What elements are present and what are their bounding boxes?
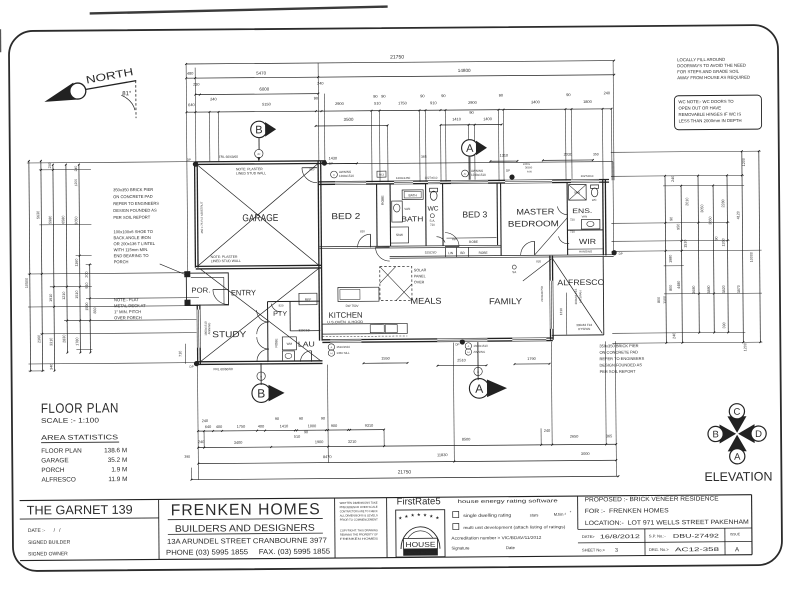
svg-text:BED 3: BED 3: [462, 209, 487, 219]
svg-text:240: 240: [671, 176, 675, 182]
svg-text:A: A: [333, 174, 335, 177]
svg-text:90: 90: [304, 430, 308, 434]
svg-text:LIN: LIN: [448, 251, 454, 255]
svg-text:OR 200x136 T LINTEL: OR 200x136 T LINTEL: [114, 241, 156, 246]
dimension row 14800 / 5470: [186, 75, 614, 78]
svg-text:SOLAR: SOLAR: [414, 268, 427, 272]
svg-text:720: 720: [430, 223, 435, 227]
svg-text:ROBE: ROBE: [274, 338, 278, 347]
svg-text:800: 800: [657, 297, 661, 303]
window kitchen bottom: [330, 339, 361, 344]
svg-text:THE GARNET 139: THE GARNET 139: [27, 503, 133, 518]
svg-text:stars: stars: [530, 512, 539, 517]
dim 1310 above wall: [490, 160, 517, 162]
door wc: [436, 237, 445, 243]
svg-text:90: 90: [669, 217, 673, 221]
svg-text:WM: WM: [287, 342, 293, 346]
wall pty lau block: [267, 302, 269, 362]
wall family alfresco divider: [549, 256, 552, 340]
svg-text:14800: 14800: [458, 68, 471, 73]
scan artifact line top: [90, 7, 388, 14]
svg-text:2900: 2900: [468, 100, 478, 105]
svg-text:BEDROOM: BEDROOM: [508, 219, 559, 228]
svg-text:U.S.OVEN A.HOOD: U.S.OVEN A.HOOD: [327, 320, 364, 324]
svg-text:LAU: LAU: [298, 339, 315, 348]
note locally fill around doorways: [677, 57, 750, 81]
eave line top: [325, 162, 613, 164]
svg-text:FAMILY: FAMILY: [489, 296, 522, 306]
svg-text:390: 390: [722, 322, 726, 328]
wall hall top: [320, 245, 501, 246]
wall ens wir left: [566, 183, 569, 255]
svg-text:6580: 6580: [61, 216, 65, 224]
svg-text:3880: 3880: [707, 285, 711, 293]
laundry trough wm: [282, 337, 296, 350]
svg-text:D: D: [755, 429, 762, 440]
section marker B top: [251, 121, 268, 138]
svg-text:DBU-27492: DBU-27492: [673, 533, 719, 539]
svg-text:PANEL: PANEL: [414, 274, 426, 278]
svg-text:16/8/2012: 16/8/2012: [600, 534, 640, 540]
svg-text:W.3: W.3: [379, 173, 384, 177]
svg-text:525CSD: 525CSD: [425, 250, 437, 254]
alfresco diagonal: [553, 258, 603, 333]
svg-text:3820: 3820: [722, 285, 726, 293]
svg-text:2900: 2900: [335, 101, 345, 106]
wall garage left: [194, 162, 197, 268]
svg-text:WIR: WIR: [579, 237, 596, 246]
svg-text:AJ: AJ: [330, 352, 333, 355]
svg-text:WC: WC: [428, 205, 439, 212]
svg-text:PORCH: PORCH: [114, 259, 129, 264]
svg-text:AJ: AJ: [467, 351, 470, 354]
svg-text:HOUSE: HOUSE: [405, 542, 435, 549]
svg-text:C: C: [733, 407, 740, 418]
svg-text:AWNING: AWNING: [207, 322, 211, 335]
title block outline: [20, 495, 752, 501]
scan artifact left edge: [0, 29, 1, 52]
svg-text:1200: 1200: [742, 158, 746, 166]
title block divider 3: [386, 498, 388, 558]
svg-text:ON CONCRETE PAD: ON CONCRETE PAD: [113, 194, 153, 199]
dimension row 1410 1400: [441, 123, 502, 125]
svg-text:REFER TO ENGINEERS: REFER TO ENGINEERS: [599, 356, 644, 361]
svg-text:LOCATION:- LOT 971 WELLS STRE: LOCATION:- LOT 971 WELLS STREET PAKENHAM: [585, 519, 749, 527]
svg-text:★: ★: [429, 514, 434, 519]
window family alfresco: [549, 281, 554, 329]
proposed block divider: [577, 496, 579, 529]
svg-text:BATH: BATH: [409, 193, 418, 197]
kitchen island: [338, 287, 379, 301]
left extension lines: [27, 162, 195, 163]
left dimension columns: [29, 161, 31, 371]
firstrate5 logo: [396, 510, 445, 557]
svg-text:1200x1450: 1200x1450: [396, 176, 411, 180]
window family bottom: [512, 337, 546, 342]
svg-text:HANGING: HANGING: [579, 249, 592, 253]
svg-text:FRENKEN HOMES: FRENKEN HOMES: [171, 501, 321, 519]
svg-text:3680: 3680: [692, 286, 696, 294]
svg-text:SIGNED BUILDER: SIGNED BUILDER: [28, 540, 71, 546]
section marker B bottom: [252, 384, 271, 403]
svg-text:★: ★: [435, 515, 440, 520]
svg-text:Signature: Signature: [451, 545, 470, 550]
svg-text:3: 3: [615, 548, 618, 554]
svg-text:2650: 2650: [570, 435, 578, 439]
svg-text:A: A: [331, 346, 333, 349]
svg-text:SA: SA: [512, 270, 516, 274]
svg-text:900: 900: [331, 424, 337, 428]
svg-text:2100x3075D: 2100x3075D: [540, 286, 544, 302]
dim 2510 below meals: [438, 364, 487, 366]
svg-text:1310: 1310: [559, 308, 563, 315]
svg-text:OPEN OUT OR HAVE: OPEN OUT OR HAVE: [678, 105, 721, 110]
svg-text:35.2 M: 35.2 M: [108, 457, 128, 464]
wall lower wing bottom study lau: [196, 361, 322, 362]
svg-text:1400: 1400: [483, 116, 493, 121]
svg-text:3870: 3870: [737, 285, 741, 293]
wall garage top: [195, 161, 326, 162]
svg-text:710: 710: [178, 351, 182, 357]
dim 1550 below kitchen: [364, 362, 408, 364]
svg-text:640: 640: [188, 102, 195, 107]
window study left: [196, 310, 201, 348]
svg-text:1.9 M: 1.9 M: [111, 466, 127, 473]
svg-text:820: 820: [452, 237, 457, 241]
right extension lines: [611, 151, 761, 152]
wall study left: [196, 305, 198, 365]
svg-text:BED 2: BED 2: [331, 211, 360, 221]
svg-text:1310: 1310: [500, 154, 508, 158]
svg-text:NOTE:- FLAT: NOTE:- FLAT: [114, 297, 139, 302]
svg-text:FRENKEN HOMES: FRENKEN HOMES: [340, 537, 378, 541]
door ens: [557, 206, 567, 214]
svg-text:ISSUE: ISSUE: [730, 532, 741, 536]
svg-text:90: 90: [299, 417, 303, 421]
svg-text:1430: 1430: [329, 157, 337, 161]
wall master left: [500, 183, 503, 255]
svg-text:640: 640: [205, 425, 211, 429]
svg-text:MJ/m ²: MJ/m ²: [554, 512, 567, 517]
svg-text:2280: 2280: [721, 199, 725, 207]
svg-text:1100: 1100: [663, 296, 667, 304]
wall garage house divider: [318, 161, 319, 341]
window bath top: [394, 180, 413, 185]
svg-text:2360: 2360: [37, 335, 41, 343]
svg-text:1510/1510: 1510/1510: [336, 345, 350, 349]
svg-text:4120: 4120: [736, 211, 740, 219]
svg-text:REFER TO ENGINEERS: REFER TO ENGINEERS: [113, 201, 159, 206]
bath tub: [402, 190, 423, 200]
svg-text:GARAGE: GARAGE: [242, 213, 278, 224]
window ens top: [571, 179, 599, 184]
svg-text:GARAGE: GARAGE: [41, 457, 68, 464]
svg-text:8470: 8470: [323, 454, 333, 459]
svg-text:1000x: 1000x: [523, 162, 531, 166]
window master top: [505, 179, 552, 184]
dimension row 3500: [316, 124, 388, 127]
svg-text:BR: BR: [460, 251, 465, 255]
svg-text:PER SOIL REPORT: PER SOIL REPORT: [600, 369, 637, 374]
svg-text:1980: 1980: [669, 255, 673, 263]
svg-text:240: 240: [198, 440, 204, 444]
svg-text:single dwelling rating: single dwelling rating: [463, 513, 512, 518]
ens shower: [569, 185, 587, 201]
svg-text:36500: 36500: [525, 165, 533, 169]
svg-text:VAN: VAN: [404, 207, 410, 211]
door wir: [559, 236, 570, 244]
svg-text:★: ★: [398, 515, 403, 520]
svg-text:KITCHEN: KITCHEN: [329, 311, 363, 320]
svg-text:B: B: [255, 124, 262, 136]
svg-text:A: A: [475, 382, 483, 396]
svg-text:1200: 1200: [743, 343, 747, 351]
svg-text:multi unit development (attach: multi unit development (attach listing o…: [463, 524, 566, 530]
svg-text:820: 820: [536, 259, 541, 263]
svg-text:FLOOR PLAN: FLOOR PLAN: [41, 448, 82, 455]
svg-text:820CSD: 820CSD: [299, 328, 311, 332]
bottom extension lines: [197, 366, 200, 480]
svg-text:1790: 1790: [527, 357, 535, 361]
svg-text:510: 510: [294, 435, 300, 439]
proposed grid lines: [578, 528, 752, 529]
svg-text:3050: 3050: [700, 204, 704, 212]
svg-text:MASTER: MASTER: [516, 207, 554, 216]
svg-text:house energy rating software: house energy rating software: [458, 498, 558, 505]
right dimension columns: [665, 176, 666, 343]
svg-text:SCALE :- 1:100: SCALE :- 1:100: [41, 417, 99, 424]
svg-text:SHEET No.>: SHEET No.>: [582, 547, 606, 552]
svg-text:820: 820: [279, 303, 284, 307]
svg-text:90: 90: [566, 92, 571, 97]
solar panel dashed box: [380, 266, 412, 300]
svg-text:240: 240: [202, 419, 208, 423]
svg-text:ALFRESCO: ALFRESCO: [557, 278, 604, 287]
svg-text:365: 365: [606, 434, 612, 438]
bottom wall window labels: [328, 344, 334, 350]
wall hall bottom: [390, 255, 614, 257]
svg-text:DRG. No.>: DRG. No.>: [649, 547, 669, 552]
door entry front: [213, 289, 228, 304]
svg-text:PORCH: PORCH: [41, 467, 65, 474]
svg-text:820: 820: [360, 229, 365, 233]
svg-text:STUDY: STUDY: [212, 329, 246, 339]
door bed3: [445, 233, 459, 247]
note box wc doors: [674, 95, 761, 130]
svg-text:1600x1510: 1600x1510: [473, 344, 488, 348]
svg-text:3500: 3500: [344, 117, 354, 122]
svg-text:HYSPAN: HYSPAN: [578, 290, 582, 302]
dim 2030 above wall: [543, 159, 593, 161]
svg-text:FOR :- FRENKEN HOMES: FOR :- FRENKEN HOMES: [585, 507, 669, 515]
svg-text:A: A: [477, 369, 479, 373]
svg-text:910: 910: [85, 282, 89, 288]
svg-text:240: 240: [210, 96, 217, 101]
smoke alarm symbols: [430, 214, 434, 218]
linen cupboards: [445, 248, 447, 257]
svg-text:81°: 81°: [122, 91, 132, 97]
svg-text:PER SOIL REPORT: PER SOIL REPORT: [113, 215, 150, 220]
svg-text:MEALS: MEALS: [410, 296, 441, 306]
svg-text:★: ★: [417, 512, 422, 517]
wc pan: [430, 191, 437, 200]
svg-text:AJ: AJ: [464, 173, 467, 176]
svg-text:VAN: VAN: [582, 214, 588, 218]
window bed2 top: [335, 181, 366, 186]
svg-text:FRL 60/60/60: FRL 60/60/60: [219, 155, 238, 159]
svg-text:OVER: OVER: [414, 280, 425, 284]
svg-text:FirstRate5: FirstRate5: [397, 496, 441, 507]
bottom dim row 21750: [191, 476, 618, 479]
alfresco outline: [602, 256, 605, 334]
svg-text:1160: 1160: [75, 259, 79, 267]
svg-text:90: 90: [441, 93, 446, 98]
svg-text:LINED STUD WALL: LINED STUD WALL: [211, 259, 241, 263]
svg-text:DOORWAYS TO AVOID THE NEED: DOORWAYS TO AVOID THE NEED: [677, 63, 746, 69]
ens wc: [591, 188, 597, 197]
svg-text:90: 90: [275, 417, 279, 421]
svg-text:3310: 3310: [49, 338, 53, 346]
svg-text:SIGNED OWNER: SIGNED OWNER: [28, 551, 68, 557]
svg-text:ENS.: ENS.: [572, 208, 592, 215]
svg-text:2510: 2510: [457, 358, 465, 362]
kitchen overhead dashed: [322, 335, 407, 338]
svg-text:★: ★: [411, 513, 416, 518]
svg-text:POR.: POR.: [191, 286, 210, 295]
dim 1790 below family: [515, 363, 550, 365]
svg-text:480: 480: [187, 72, 193, 76]
study entry cross diagonals: [200, 268, 321, 362]
svg-text:1750: 1750: [398, 100, 408, 105]
svg-text:NORTH: NORTH: [85, 66, 134, 87]
door study double: [257, 310, 269, 322]
dim 1430 above wall: [321, 162, 357, 164]
svg-text:400: 400: [258, 425, 264, 429]
svg-text:2010: 2010: [685, 198, 689, 206]
svg-text:BATH: BATH: [401, 214, 423, 223]
door bed2: [357, 234, 370, 247]
svg-text:*: *: [570, 510, 572, 515]
svg-text:AREA STATISTICS: AREA STATISTICS: [41, 434, 119, 442]
door pty: [271, 304, 281, 312]
svg-text:90: 90: [499, 93, 504, 98]
svg-text:10000: 10000: [750, 252, 754, 262]
svg-text:138.6 M: 138.6 M: [104, 447, 127, 454]
svg-text:HYSPAN: HYSPAN: [578, 327, 590, 331]
svg-text:13A ARUNDEL STREET CRANBOURNE: 13A ARUNDEL STREET CRANBOURNE 3977: [167, 536, 327, 546]
svg-text:240: 240: [48, 162, 52, 168]
svg-text:240: 240: [74, 166, 78, 172]
svg-text:450 x 75 F17 KB/STRUT: 450 x 75 F17 KB/STRUT: [200, 201, 204, 233]
svg-text:1410: 1410: [280, 424, 288, 428]
svg-text:★: ★: [404, 514, 409, 519]
svg-text:1350 SILL: 1350 SILL: [336, 351, 350, 355]
svg-text:PHONE (03) 5995 1855 FAX.: PHONE (03) 5995 1855 FAX. (03) 5995 1855: [166, 547, 330, 557]
svg-text:Accreditation number > VIC/BDA: Accreditation number > VIC/BDAV/11/2012: [451, 535, 542, 541]
svg-text:365: 365: [421, 155, 427, 159]
svg-text:340: 340: [50, 364, 54, 370]
checkbox multi unit: [453, 524, 459, 530]
svg-text:9310: 9310: [365, 424, 373, 428]
window bed3 top: [451, 180, 488, 185]
svg-text:5980: 5980: [48, 216, 52, 224]
door hall to meals: [376, 247, 390, 261]
svg-text:5470: 5470: [256, 71, 266, 76]
bath vanity: [392, 201, 403, 222]
fridge: [299, 293, 317, 305]
svg-text:1200x1510: 1200x1510: [339, 174, 354, 178]
svg-text:1750: 1750: [237, 425, 245, 429]
wall bath left right: [425, 184, 427, 246]
svg-text:PRIOR TO COMMENCEMENT: PRIOR TO COMMENCEMENT: [340, 517, 378, 521]
svg-text:100x100x6 SHOE TO: 100x100x6 SHOE TO: [113, 229, 152, 234]
svg-text:DP: DP: [187, 158, 191, 162]
bottom dim row detail: [198, 430, 384, 431]
svg-text:230: 230: [193, 83, 199, 87]
svg-text:720: 720: [570, 218, 575, 222]
svg-text:ROBE: ROBE: [479, 251, 488, 255]
svg-text:S.P. No.:-: S.P. No.:-: [649, 533, 667, 538]
svg-text:DATE :- / /: DATE :- / /: [28, 528, 61, 534]
svg-text:BACK ANGLE IRON: BACK ANGLE IRON: [113, 235, 150, 240]
svg-text:DESIGN FOUNDED AS: DESIGN FOUNDED AS: [113, 208, 157, 213]
shower bath: [390, 227, 408, 243]
svg-text:DP: DP: [506, 169, 510, 173]
ens vanity: [581, 219, 600, 229]
svg-text:LESS THAN 2000mm IN DEPTH: LESS THAN 2000mm IN DEPTH: [679, 118, 742, 124]
door alfresco stacker: [523, 259, 552, 281]
svg-text:A: A: [260, 374, 262, 378]
svg-text:4480: 4480: [677, 281, 681, 289]
kitchen bench: [322, 323, 407, 334]
svg-text:REMOVABLE HINGES IF WC IS: REMOVABLE HINGES IF WC IS: [679, 112, 742, 118]
wall ens wir divider: [567, 229, 603, 231]
dimension row 6000: [195, 93, 318, 96]
svg-text:90: 90: [381, 94, 386, 99]
svg-text:200: 200: [85, 271, 89, 277]
bottom dim row 8470 11830 3000: [198, 460, 616, 463]
svg-text:A: A: [468, 345, 470, 348]
wall wc right: [442, 184, 444, 246]
svg-text:21750: 21750: [390, 54, 404, 60]
svg-text:1410: 1410: [452, 116, 462, 121]
svg-text:1200: 1200: [74, 179, 78, 187]
svg-text:1910: 1910: [49, 294, 53, 302]
svg-text:1210: 1210: [62, 292, 66, 300]
svg-text:5150: 5150: [262, 102, 272, 107]
svg-text:720: 720: [570, 230, 575, 234]
svg-text:6000: 6000: [259, 87, 269, 92]
porch piers: [184, 271, 190, 277]
svg-text:PTY: PTY: [273, 311, 288, 318]
wall house right: [602, 180, 605, 256]
svg-text:LOCALLY FILL AROUND: LOCALLY FILL AROUND: [677, 57, 725, 62]
svg-text:B: B: [257, 386, 265, 400]
svg-text:1000: 1000: [308, 424, 316, 428]
master robe diagonal: [534, 218, 567, 255]
section marker A top: [462, 140, 479, 157]
svg-text:FLOOR PLAN: FLOOR PLAN: [41, 400, 119, 416]
svg-text:END BEARING TO: END BEARING TO: [114, 253, 149, 258]
svg-text:ENERGY RATINGS: ENERGY RATINGS: [406, 551, 436, 555]
svg-text:AC12-358: AC12-358: [675, 547, 719, 553]
svg-text:ALFRESCO: ALFRESCO: [41, 476, 76, 483]
svg-text:240: 240: [544, 429, 550, 433]
svg-text:1550: 1550: [381, 357, 389, 361]
svg-text:820: 820: [310, 167, 315, 171]
porch outline: [186, 273, 228, 305]
svg-text:3400: 3400: [531, 99, 541, 104]
